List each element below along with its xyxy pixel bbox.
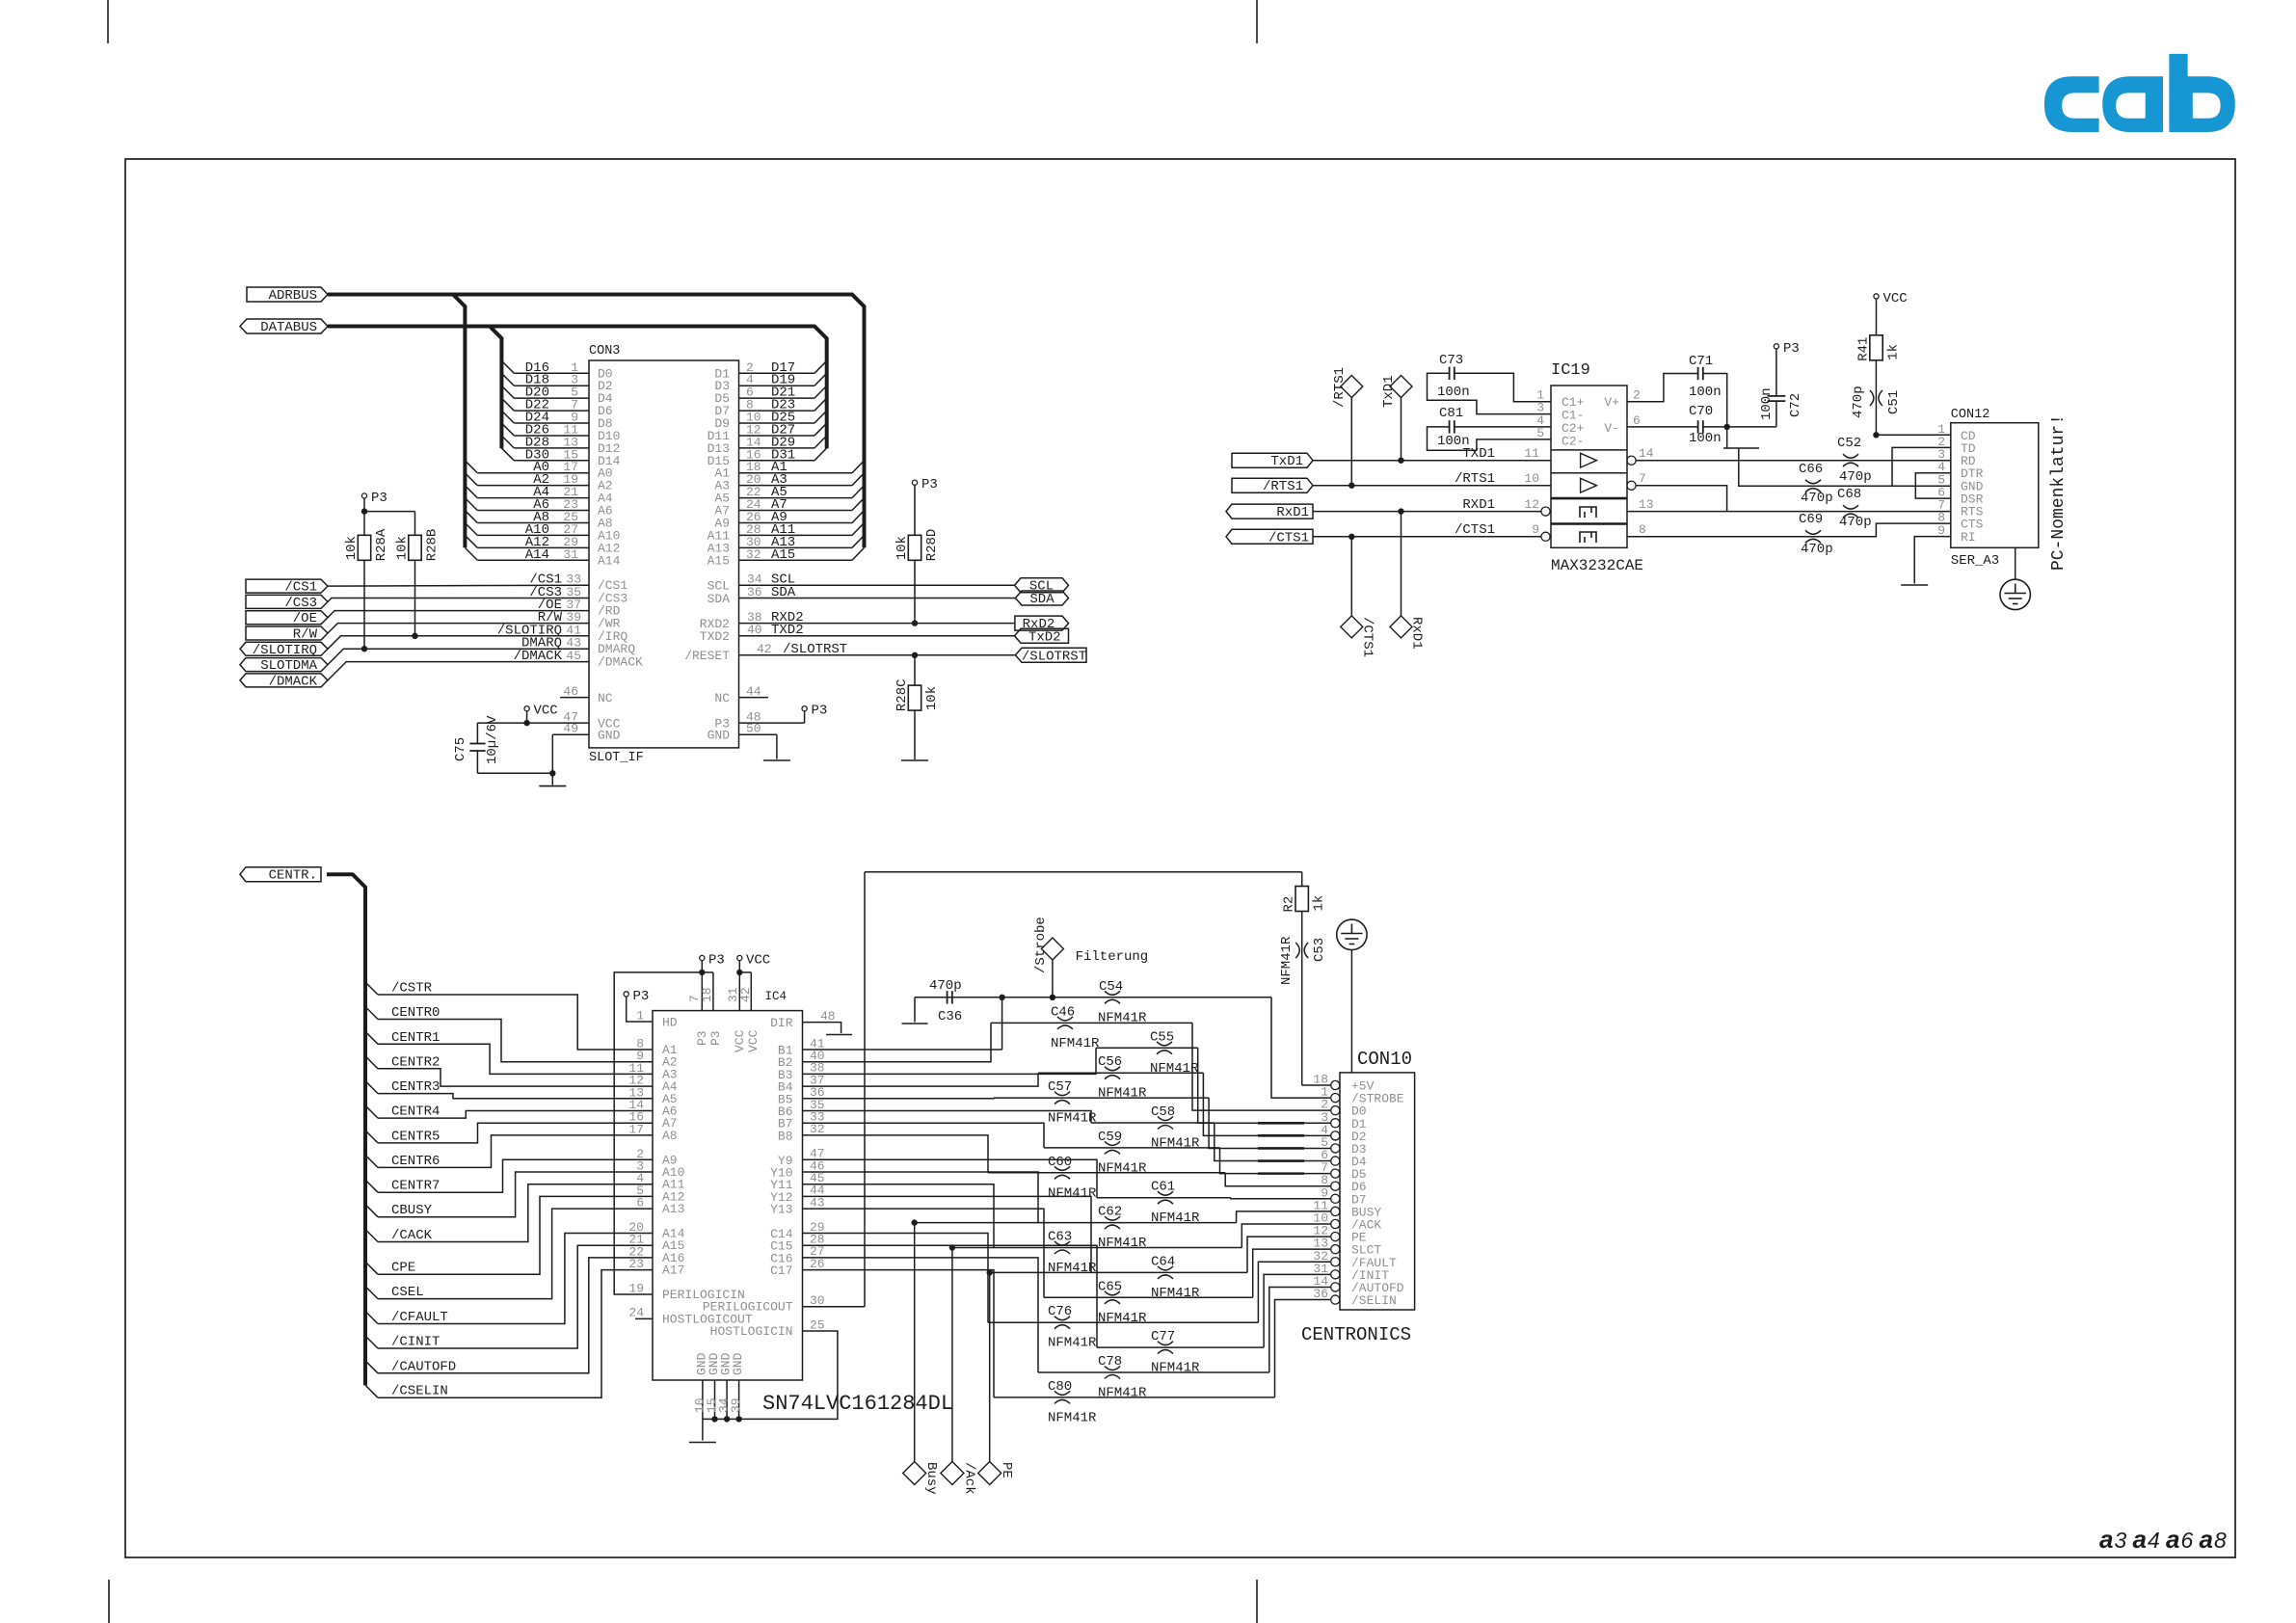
page fold tick bottom-left [108, 1580, 110, 1623]
svg-text:/RTS1: /RTS1 [1332, 367, 1348, 408]
peripheral ref diamond Busy [903, 1219, 939, 1494]
svg-text:42: 42 [757, 642, 772, 656]
capacitor C63 NFM41R [1048, 1230, 1097, 1277]
svg-text:RXD1: RXD1 [1462, 497, 1495, 513]
bubble pin14 [1627, 456, 1636, 465]
svg-text:8: 8 [2214, 1528, 2227, 1553]
svg-text:/CSELIN: /CSELIN [391, 1384, 448, 1399]
wire /CSELIN from CENTR bus to IC4 A17 [365, 1257, 684, 1399]
svg-text:A15: A15 [771, 547, 795, 563]
wire data bus line D28 / pin 13 [501, 435, 620, 456]
svg-text:4: 4 [2148, 1528, 2160, 1553]
capacitor C80 NFM41R [1048, 1379, 1097, 1426]
svg-text:C65: C65 [1098, 1279, 1122, 1294]
pin 13 CON10 SLCT [1313, 1237, 1381, 1258]
peripheral ref diamond /Ack [941, 1244, 976, 1494]
pin 8 CON10 D6 [1321, 1173, 1366, 1194]
wire data bus line D31 / pin 16 [707, 447, 827, 468]
capacitor C81 100n with pin4/pin5 loop [1428, 406, 1552, 450]
svg-text:C77: C77 [1151, 1329, 1175, 1344]
wire net Y12 through filter C64 to CON10 pin 12 [770, 1184, 1331, 1273]
svg-text:100n: 100n [1759, 387, 1775, 420]
svg-text:10k: 10k [894, 536, 910, 560]
wire address bus line A6 / pin 23 [465, 497, 612, 519]
capacitor C73 100n with pin1/pin3 loop [1428, 353, 1552, 415]
wire data bus line D30 / pin 15 [501, 447, 620, 468]
svg-text:VCC: VCC [733, 1029, 747, 1052]
wire /CSTR from CENTR bus to IC4 A1 [365, 981, 678, 1058]
svg-text:Busy: Busy [923, 1462, 939, 1495]
svg-text:C69: C69 [1799, 512, 1823, 527]
wire CENTR4 from CENTR bus to IC4 A6 [365, 1098, 678, 1120]
ground below CON3 pin 50 [763, 759, 790, 761]
wire SCL net / pin 34 [707, 572, 1015, 594]
svg-text:6: 6 [2181, 1528, 2194, 1553]
svg-text:NFM41R: NFM41R [1151, 1211, 1200, 1226]
ground at C36 [902, 1023, 928, 1024]
svg-text:TXD2: TXD2 [771, 623, 804, 638]
connector CON10 outline [1301, 1049, 1415, 1345]
svg-text:NFM41R: NFM41R [1150, 1061, 1199, 1077]
capacitor C58 NFM41R [1151, 1104, 1200, 1152]
resistor R28B 10k [395, 512, 441, 639]
wire RXD1 pin 12 [1313, 497, 1541, 515]
wire PERILOGICOUT pull-up loop to R2 [865, 872, 1302, 1307]
wire net B4 through filter C56 to CON10 pin 4 [778, 1073, 1331, 1135]
wire data bus line D29 / pin 14 [707, 435, 827, 456]
wire pin 49 GND to ground [549, 722, 621, 785]
svg-text:SDA: SDA [1029, 592, 1055, 607]
svg-text:C60: C60 [1048, 1155, 1072, 1170]
svg-text:C80: C80 [1048, 1379, 1072, 1395]
capacitor C56 NFM41R [1098, 1054, 1147, 1102]
svg-text:RI: RI [1961, 530, 1976, 545]
svg-text:NFM41R: NFM41R [1151, 1136, 1200, 1152]
svg-text:470p: 470p [1839, 469, 1872, 485]
wire GND/C66 line with capacitor C66 470p [1739, 448, 1951, 506]
wire /CFAULT from CENTR bus to IC4 A14 [365, 1220, 685, 1325]
svg-text:/Ack: /Ack [961, 1462, 976, 1495]
svg-text:DIR: DIR [770, 1016, 793, 1030]
pin 32 CON10 /FAULT [1313, 1249, 1397, 1270]
wire pin 44 NC [714, 684, 768, 705]
wire net B3 through filter C55 to CON10 pin 3 [778, 1048, 1331, 1123]
wire CENTR0 from CENTR bus to IC4 A2 [365, 1005, 678, 1070]
ground below CON3 pin 49 [539, 785, 566, 787]
svg-text:RxD1: RxD1 [1276, 505, 1309, 520]
svg-text:C72: C72 [1788, 393, 1803, 417]
net flag SLOTDMA [240, 658, 328, 672]
resistor R2 1k [1282, 872, 1327, 913]
svg-text:RxD1: RxD1 [1409, 617, 1425, 650]
svg-text:25: 25 [810, 1317, 825, 1332]
wire address bus line A8 / pin 25 [465, 510, 612, 531]
pin 4 CON12 DTR [1937, 460, 1983, 481]
wire net C14 through filter C76 to CON10 pin 32 [770, 1220, 1331, 1322]
ground below IC4 [689, 1442, 716, 1444]
svg-text:CENTR4: CENTR4 [391, 1104, 440, 1120]
svg-text:CON10: CON10 [1357, 1049, 1412, 1070]
svg-text:NFM41R: NFM41R [1098, 1086, 1147, 1102]
peripheral ref diamond PE [978, 1269, 1014, 1484]
svg-text:14: 14 [1639, 446, 1654, 461]
svg-text:CENTR6: CENTR6 [391, 1154, 440, 1169]
peripheral ref diamond /Strobe [1033, 917, 1148, 998]
wire net C17 through filter C80 to CON10 pin 36 [770, 1257, 1331, 1397]
svg-text:/DMACK: /DMACK [514, 649, 563, 664]
net flag /CS1 [246, 579, 328, 593]
svg-text:P3: P3 [1783, 341, 1800, 357]
svg-text:7: 7 [1639, 471, 1646, 486]
net flag RxD1 [1226, 504, 1313, 519]
net flag TxD1 [1232, 453, 1313, 467]
svg-text:HD: HD [662, 1016, 678, 1030]
svg-text:GND: GND [731, 1352, 745, 1375]
svg-text:C71: C71 [1689, 354, 1713, 369]
wire TD vertical to CON12 pin2 [1892, 447, 1951, 486]
wire CON12 pin1 CD [1876, 434, 1950, 436]
supply P3 for R28D [912, 477, 937, 535]
svg-text:C63: C63 [1048, 1230, 1072, 1245]
wire net B8 through filter C60 to CON10 pin 8 [778, 1122, 1331, 1186]
svg-text:A15: A15 [707, 553, 730, 568]
wire address bus line A14 / pin 31 [465, 547, 620, 569]
svg-text:DATABUS: DATABUS [260, 320, 317, 335]
ground at C70/C71 junction [1723, 427, 1759, 448]
wire P3 branch to IC4 pin19 PERILOGICIN [614, 972, 745, 1302]
svg-text:/CAUTOFD: /CAUTOFD [391, 1359, 456, 1374]
svg-text:NFM41R: NFM41R [1279, 936, 1295, 985]
wire CTS line pin8 to CON12 pin8 with capacitor C69 470p [1627, 512, 1951, 557]
svg-text:P3: P3 [708, 1030, 723, 1046]
wire RD line pin14 to CON12 pin3 with capacitor C52 470p [1636, 436, 1951, 485]
svg-text:C59: C59 [1098, 1130, 1122, 1145]
svg-text:44: 44 [746, 684, 761, 699]
svg-text:CON12: CON12 [1951, 408, 1990, 422]
svg-text:NFM41R: NFM41R [1098, 1236, 1147, 1251]
ground at DIR pin [826, 1034, 852, 1036]
svg-text:470p: 470p [1851, 386, 1866, 418]
wire address bus line A7 / pin 24 [714, 497, 864, 519]
wire IC4 pin25 HOSTLOGICIN to GND rail [703, 1317, 838, 1419]
resistor R41 1k [1856, 335, 1902, 361]
svg-text:R28A: R28A [374, 528, 389, 561]
svg-text:NFM41R: NFM41R [1098, 1386, 1147, 1401]
pin 36 CON10 /SELIN [1313, 1287, 1396, 1308]
svg-text:13: 13 [1639, 497, 1654, 512]
svg-text:46: 46 [563, 684, 578, 699]
pin 7 CON12 RTS [1937, 498, 1983, 519]
svg-text:10k: 10k [395, 536, 411, 560]
supply VCC at IC4 top pins 31/42 [726, 953, 770, 1053]
svg-text:C61: C61 [1151, 1180, 1175, 1195]
wire CSEL from CENTR bus to IC4 A13 [365, 1196, 684, 1301]
wire net Y13 through filter C65 to CON10 pin 13 [770, 1195, 1331, 1297]
svg-text:P3: P3 [812, 704, 828, 719]
svg-text:/CACK: /CACK [391, 1228, 433, 1243]
capacitor C70 100n on V- wire [1627, 404, 1776, 446]
svg-text:/DMACK: /DMACK [598, 655, 643, 670]
wire address bus line A15 / pin 32 [707, 547, 865, 569]
svg-text:/OE: /OE [293, 611, 317, 626]
wire pin 46 NC [560, 684, 613, 705]
wire CENTR bus trunk [327, 874, 365, 1385]
wire TXD1 pin 11 [1313, 446, 1551, 464]
wire /RTS1 pin 10 [1313, 471, 1551, 489]
svg-text:1k: 1k [1312, 895, 1327, 912]
pin 8 CON12 CTS [1937, 511, 1983, 532]
wire RTS line pin13 to CON12 pin7 with capacitor C68 470p [1627, 487, 1951, 530]
bubble pin9 [1541, 532, 1550, 541]
wire ADRBUS bus trunk [328, 295, 865, 548]
net flag /SLOTRST [1015, 648, 1086, 662]
wire address bus line A10 / pin 27 [465, 522, 620, 544]
svg-text:IC19: IC19 [1551, 361, 1590, 380]
supply P3 for R28A/R28B [361, 491, 415, 515]
svg-text:17: 17 [628, 1122, 644, 1136]
svg-text:CBUSY: CBUSY [391, 1203, 433, 1218]
svg-text:VCC: VCC [1883, 291, 1908, 306]
wire /CACK from CENTR bus to IC4 A11 [365, 1171, 685, 1243]
bus flag DATABUS [240, 319, 328, 333]
svg-text:6: 6 [636, 1196, 644, 1211]
net flag R/W [246, 626, 328, 640]
svg-text:A17: A17 [662, 1264, 684, 1278]
svg-text:VCC: VCC [746, 1029, 761, 1052]
svg-text:C64: C64 [1151, 1254, 1175, 1269]
capacitor C55 NFM41R [1150, 1029, 1199, 1077]
svg-text:C56: C56 [1098, 1054, 1122, 1070]
wire /SLOTRST net / pin 42 [684, 642, 1015, 663]
wire R/W to CON3 pin 39 [328, 610, 621, 633]
svg-text:HOSTLOGICIN: HOSTLOGICIN [710, 1324, 793, 1339]
wire data bus line D27 / pin 12 [707, 422, 827, 443]
capacitor C77 NFM41R [1151, 1329, 1200, 1376]
capacitor C78 NFM41R [1098, 1354, 1147, 1401]
svg-text:C76: C76 [1048, 1304, 1072, 1319]
svg-text:NC: NC [598, 691, 613, 705]
svg-text:PERILOGICOUT: PERILOGICOUT [703, 1299, 793, 1314]
wire IC4 GND pins 10/15/34/39 [693, 1352, 746, 1440]
wire TXD2 net / pin 40 [700, 623, 1015, 644]
supply VCC at CON3 pin 47 [523, 704, 620, 732]
wire CENTR2 from CENTR bus to IC4 A4 [365, 1054, 678, 1094]
capacitor C62 NFM41R [1098, 1205, 1147, 1252]
wire DTR-DSR tie CON12 pins 4 and 6 [1915, 473, 1951, 498]
svg-text:C46: C46 [1051, 1004, 1075, 1020]
svg-text:C66: C66 [1799, 462, 1823, 477]
svg-text:NFM41R: NFM41R [1048, 1185, 1097, 1201]
pin 31 CON10 /INIT [1313, 1262, 1389, 1283]
svg-text:R2: R2 [1282, 896, 1297, 913]
pin 9 CON12 RI [1937, 523, 1975, 545]
pin 3 CON10 D1 [1321, 1110, 1367, 1131]
svg-text:/CSTR: /CSTR [391, 981, 433, 997]
wire /CAUTOFD from CENTR bus to IC4 A16 [365, 1244, 684, 1374]
wire data bus line D18 / pin 3 [501, 373, 612, 394]
svg-text:/CINIT: /CINIT [391, 1335, 440, 1350]
pin 9 CON10 D7 [1321, 1185, 1366, 1207]
svg-text:MAX3232CAE: MAX3232CAE [1551, 557, 1643, 574]
svg-text:NFM41R: NFM41R [1051, 1036, 1100, 1051]
wire data bus line D17 / pin 2 [714, 360, 826, 382]
svg-text:P3: P3 [921, 477, 938, 492]
svg-text:5: 5 [1536, 426, 1544, 440]
wire data bus line D24 / pin 9 [501, 411, 612, 432]
peripheral ref diamond RxD1 [1390, 512, 1425, 650]
svg-text:C54: C54 [1099, 979, 1123, 995]
net flag SDA [1015, 591, 1068, 605]
wire net C15 through filter C77 to CON10 pin 31 [770, 1233, 1331, 1348]
svg-text:32: 32 [810, 1122, 825, 1136]
svg-text:IC4: IC4 [765, 990, 788, 1003]
svg-text:CENTR1: CENTR1 [391, 1030, 440, 1046]
svg-text:C70: C70 [1689, 404, 1713, 419]
ground below CON12 RI [1901, 584, 1928, 586]
svg-text:a: a [2200, 1525, 2213, 1554]
svg-text:/RESET: /RESET [684, 649, 730, 663]
net flag /RTS1 [1232, 478, 1313, 492]
wire address bus line A12 / pin 29 [465, 535, 620, 556]
svg-text:/SLOTRST: /SLOTRST [783, 642, 847, 657]
capacitor C46 NFM41R [1051, 1004, 1100, 1051]
wire net B6 through filter C58 to CON10 pin 6 [778, 1098, 1331, 1161]
wire net B5 through filter C57 to CON10 pin 5 [778, 1085, 1331, 1148]
peripheral ref diamond TxD1 [1381, 375, 1412, 460]
wire address bus line A1 / pin 18 [714, 460, 864, 481]
capacitor C54 NFM41R on strobe line [1098, 979, 1147, 1025]
svg-text:9: 9 [1937, 523, 1945, 538]
net flag /DMACK [240, 674, 328, 687]
svg-text:10µ/6V: 10µ/6V [485, 715, 500, 764]
wire data bus line D19 / pin 4 [714, 373, 826, 394]
svg-text:CSEL: CSEL [391, 1285, 424, 1300]
svg-text:/SELIN: /SELIN [1351, 1293, 1397, 1308]
wire data bus line D16 / pin 1 [501, 360, 612, 382]
svg-text:C68: C68 [1837, 487, 1861, 502]
svg-text:a: a [2133, 1525, 2147, 1554]
svg-text:42: 42 [738, 987, 753, 1002]
svg-text:48: 48 [820, 1009, 836, 1024]
svg-text:TXD1: TXD1 [1462, 446, 1495, 462]
svg-text:C52: C52 [1837, 436, 1861, 451]
svg-text:PC-Nomenklatur!: PC-Nomenklatur! [2049, 414, 2069, 571]
svg-text:P3: P3 [695, 1030, 709, 1046]
bus flag ADRBUS [247, 287, 328, 302]
svg-text:PE: PE [999, 1462, 1014, 1478]
svg-text:/CS3: /CS3 [284, 596, 317, 611]
svg-text:NFM41R: NFM41R [1098, 1160, 1147, 1176]
capacitor C72 100n to P3 [1759, 349, 1803, 427]
wire address bus line A9 / pin 26 [714, 510, 864, 531]
wire SLOTDMA to CON3 pin 43 [328, 636, 635, 665]
net flag /CTS1 [1226, 529, 1313, 544]
wire /CS3 to CON3 pin 35 [328, 585, 627, 606]
pin 10 CON10 /ACK [1313, 1211, 1381, 1232]
wire /OE to CON3 pin 37 [328, 598, 621, 619]
pin 2 CON12 TD [1937, 435, 1976, 456]
svg-text:V+: V+ [1604, 395, 1619, 410]
svg-text:/CTS1: /CTS1 [1360, 617, 1375, 657]
wire TD net pin7 jog [1636, 471, 1727, 512]
peripheral ref diamond /CTS1 [1341, 537, 1375, 657]
svg-text:SLOT_IF: SLOT_IF [589, 751, 644, 765]
wire SDA net / pin 36 [707, 585, 1016, 606]
wire address bus line A11 / pin 28 [707, 522, 865, 544]
net flag SCL [1015, 578, 1069, 593]
svg-text:8: 8 [1639, 522, 1646, 537]
svg-text:/SLOTRST: /SLOTRST [1022, 649, 1086, 664]
capacitor C61 NFM41R [1151, 1180, 1200, 1227]
capacitor C60 NFM41R [1048, 1155, 1097, 1202]
svg-text:39: 39 [729, 1397, 743, 1413]
capacitor C57 NFM41R [1048, 1079, 1097, 1127]
svg-text:NFM41R: NFM41R [1048, 1410, 1097, 1425]
svg-text:V-: V- [1604, 421, 1619, 436]
capacitor C36 470p line [915, 978, 1271, 1024]
wire B1 strobe net from IC4 [778, 995, 1005, 1058]
svg-text:C36: C36 [938, 1009, 962, 1024]
svg-text:10k: 10k [344, 536, 360, 560]
wire net B7 through filter C59 to CON10 pin 7 [778, 1110, 1331, 1174]
wire ADRBUS left drop trunk [453, 295, 465, 548]
svg-text:24: 24 [628, 1306, 644, 1320]
wire DATABUS bus trunk [328, 327, 827, 449]
wire data bus line D26 / pin 11 [501, 422, 620, 443]
wire address bus line A5 / pin 22 [714, 485, 864, 506]
svg-text:NC: NC [714, 691, 730, 705]
pin 7 CON10 D5 [1321, 1160, 1366, 1182]
bubble pin7 [1627, 481, 1636, 490]
svg-text:/RTS1: /RTS1 [1263, 479, 1303, 494]
driver triangle T2 in IC19 [1581, 478, 1597, 492]
op-amp/driver IC U IC19 MAX3232 outline [1551, 361, 1643, 574]
svg-text:/Strobe: /Strobe [1033, 917, 1049, 973]
wire net Y11 through filter C63 to CON10 pin 10 [770, 1171, 1331, 1248]
net flag /OE [246, 611, 328, 625]
pin 14 CON10 /AUTOFD [1313, 1274, 1403, 1295]
svg-text:1k: 1k [1886, 344, 1902, 360]
svg-text:10k: 10k [924, 686, 940, 710]
svg-text:100n: 100n [1689, 385, 1722, 400]
svg-text:TxD1: TxD1 [1270, 454, 1303, 469]
svg-text:18: 18 [700, 987, 714, 1002]
wire /CS1 to CON3 pin 33 [328, 572, 627, 594]
svg-text:CENTR.: CENTR. [269, 868, 317, 884]
svg-text:NFM41R: NFM41R [1098, 1311, 1147, 1326]
svg-text:a: a [2166, 1525, 2179, 1554]
svg-text:Filterung: Filterung [1076, 949, 1149, 965]
wire CPE from CENTR bus to IC4 A12 [365, 1184, 684, 1276]
svg-text:12: 12 [1524, 497, 1539, 512]
svg-text:SDA: SDA [771, 585, 796, 600]
wire net Y9 through filter C61 to CON10 pin 9 [778, 1147, 1331, 1199]
svg-text:VCC: VCC [746, 953, 770, 969]
wire pin 48 P3 [714, 704, 827, 732]
peripheral ref diamond /RTS1 [1332, 367, 1363, 486]
logic IC IC4 SN74LVC161284DL outline [653, 990, 953, 1416]
svg-text:50: 50 [746, 722, 761, 736]
svg-text:470p: 470p [1801, 491, 1833, 506]
wire net Y10 through filter C62 to CON10 pin 11 [770, 1158, 1331, 1222]
svg-text:CENTR7: CENTR7 [391, 1179, 440, 1194]
wire address bus line A2 / pin 19 [465, 472, 612, 493]
svg-text:GND: GND [598, 729, 621, 743]
earth/PE symbol above CON10 [1337, 919, 1367, 1073]
svg-text:31: 31 [563, 547, 578, 562]
pin 3 CON12 RD [1937, 447, 1976, 468]
bus flag CENTR. [240, 867, 321, 882]
